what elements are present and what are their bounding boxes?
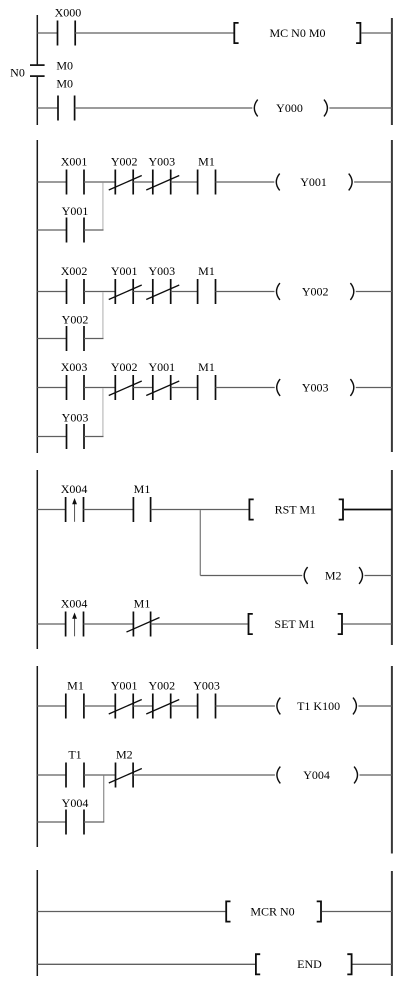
svg-text:Y003: Y003 xyxy=(62,410,89,424)
svg-text:Y004: Y004 xyxy=(62,796,89,810)
left power rail (block 2) xyxy=(36,140,38,453)
right power rail (block 3) xyxy=(391,470,393,645)
rung 7 wire: X004 to M1 contact xyxy=(84,623,134,625)
rung 6 wire: X004 to M1 contact xyxy=(84,509,134,511)
rung 2 wire: Y000 coil to right rail xyxy=(329,107,392,109)
rung 7 wire: left rail to X004 xyxy=(37,623,65,625)
svg-text:X004: X004 xyxy=(61,596,88,610)
svg-text:X003: X003 xyxy=(61,360,88,374)
svg-text:X002: X002 xyxy=(61,264,88,278)
right power rail (block 4) xyxy=(391,666,393,854)
rung 5 wire: left rail to X003 xyxy=(37,387,66,389)
rung 10 wire: left rail to MCR instruction xyxy=(37,911,225,913)
svg-text:Y001: Y001 xyxy=(111,264,138,278)
rung 4 wire: M1 to Y002 coil xyxy=(216,291,275,293)
svg-text:X001: X001 xyxy=(61,154,88,168)
rung 3 wire: left rail to X001 xyxy=(37,181,66,183)
left power rail (block 3) xyxy=(36,470,38,649)
rung 8 wire: Y002 to Y003 contact xyxy=(171,705,198,707)
rung 3 wire: Y002 to Y003 contact xyxy=(133,181,153,183)
rung 1 wire: left rail to X000 contact xyxy=(37,32,57,34)
svg-text:M1: M1 xyxy=(67,678,84,692)
rung 5 wire: Y001 to M1 contact xyxy=(171,387,198,389)
svg-text:Y003: Y003 xyxy=(193,678,220,692)
instruction MC N0 M0 left bracket xyxy=(234,23,238,43)
rung 4 parallel branch wire: Y002 contact to junction xyxy=(84,338,104,340)
rung 6 wire: RST instruction to right rail xyxy=(344,509,392,511)
instruction SET M1 right bracket xyxy=(338,614,342,634)
svg-text:Y001: Y001 xyxy=(62,204,89,218)
rung 8 wire: Y001 to Y002 contact xyxy=(133,705,153,707)
rung 11 wire: left rail to END instruction xyxy=(37,963,255,965)
svg-text:M1: M1 xyxy=(134,482,151,496)
contact Y004 (NO, parallel seal-in) xyxy=(66,810,84,835)
rung 1 wire: MC instruction to right rail xyxy=(361,32,392,34)
svg-text:END: END xyxy=(297,957,322,971)
rung 4 parallel branch wire: left rail to Y002 contact xyxy=(37,338,66,340)
rung 1 wire: X000 to MC instruction xyxy=(75,32,233,34)
svg-text:MCR N0: MCR N0 xyxy=(250,904,294,918)
rung 3 wire: X001 to Y002 contact xyxy=(84,181,115,183)
svg-text:Y002: Y002 xyxy=(62,312,89,326)
left power rail (block 1, above MC nest contact) xyxy=(36,15,38,64)
rung 3 wire: Y001 coil to right rail xyxy=(354,181,392,183)
right power rail (block 2) xyxy=(391,140,393,452)
svg-text:N0: N0 xyxy=(10,66,25,80)
rung 7 wire: M1 to SET instruction xyxy=(151,623,248,625)
rung 9 wire: T1 to M2 contact xyxy=(84,774,116,776)
rung 9 parallel branch wire: Y004 contact to junction xyxy=(84,821,104,823)
rung 3 wire: M1 to Y001 coil xyxy=(216,181,275,183)
rung 3 parallel branch wire: left rail to Y001 contact xyxy=(37,229,66,231)
instruction MCR N0 right bracket xyxy=(317,901,321,921)
left power rail (block 4) xyxy=(36,666,38,847)
coil T1 (timer, preset K100) xyxy=(277,698,357,715)
contact M1 (NO) xyxy=(198,375,216,400)
contact Y001 (NO, parallel seal-in) xyxy=(67,218,85,243)
rung 8 wire: left rail to M1 contact xyxy=(37,705,66,707)
rung 2 wire: left rail to M0 contact xyxy=(37,107,58,109)
contact M1 (NO) xyxy=(133,497,150,522)
coil Y001 xyxy=(276,174,352,191)
contact Y002 (NO, parallel seal-in) xyxy=(67,326,85,351)
contact Y001 (NC) xyxy=(109,279,142,304)
contact Y001 (NC) xyxy=(109,694,142,719)
branch junction wire joining Y002 parallel branch to rung 4 xyxy=(102,292,104,338)
coil Y000 xyxy=(254,100,327,117)
rung 5 wire: M1 to Y003 coil xyxy=(216,387,275,389)
svg-text:Y000: Y000 xyxy=(276,101,303,115)
svg-text:T1: T1 xyxy=(68,747,81,761)
svg-text:Y002: Y002 xyxy=(111,154,138,168)
contact X003 (NO) xyxy=(67,375,85,400)
svg-text:Y002: Y002 xyxy=(148,678,175,692)
svg-text:M1: M1 xyxy=(198,360,215,374)
contact T1 (NO) xyxy=(66,763,84,788)
svg-text:Y002: Y002 xyxy=(111,360,138,374)
rung 4 wire: Y002 coil to right rail xyxy=(356,291,392,293)
coil Y002 xyxy=(277,283,354,300)
rung 6 wire: left rail to X004 xyxy=(37,509,65,511)
rung 9 wire: left rail to T1 contact xyxy=(37,774,66,776)
contact M1 (NC) xyxy=(127,612,160,637)
contact X004 (rising-edge pulse) xyxy=(66,497,84,522)
contact M0 (NO) xyxy=(58,96,75,121)
rung 5 wire: X003 to Y002 contact xyxy=(84,387,115,389)
contact X002 (NO) xyxy=(67,279,85,304)
contact Y002 (NC, interlock) xyxy=(109,375,142,400)
contact Y002 (NC) xyxy=(146,694,179,719)
svg-text:Y004: Y004 xyxy=(303,768,330,782)
svg-text:Y003: Y003 xyxy=(148,264,175,278)
svg-text:Y001: Y001 xyxy=(148,360,175,374)
rung 8 wire: M1 to Y001 contact xyxy=(84,705,115,707)
svg-text:M2: M2 xyxy=(325,568,342,582)
svg-text:X004: X004 xyxy=(61,482,88,496)
instruction SET M1 left bracket xyxy=(249,614,253,634)
rung 11 wire: END instruction to right rail xyxy=(353,963,392,965)
branch junction wire joining Y004 parallel branch to rung 9 xyxy=(103,776,105,822)
branch wire: junction to M2 coil xyxy=(200,575,302,577)
coil Y004 xyxy=(277,767,358,784)
svg-text:X000: X000 xyxy=(55,5,82,19)
svg-text:Y002: Y002 xyxy=(302,284,329,298)
contact M1 (NO) xyxy=(66,694,84,719)
rung 4 wire: X002 to Y001 contact xyxy=(84,291,115,293)
contact M2 (NC) xyxy=(109,763,142,788)
rung 8 wire: timer coil to right rail xyxy=(358,705,392,707)
contact Y003 (NO, parallel seal-in) xyxy=(67,424,85,449)
contact Y001 (NC, interlock) xyxy=(146,375,179,400)
rung 10 wire: MCR instruction to right rail xyxy=(322,911,392,913)
svg-text:Y001: Y001 xyxy=(111,678,138,692)
rung 2 wire: M0 contact to Y000 coil xyxy=(75,107,253,109)
rung 9 wire: M2 to Y004 coil xyxy=(133,774,275,776)
branch wire dropping from rung 6 to M2 coil line xyxy=(199,510,201,575)
rung 4 wire: Y003 to M1 contact xyxy=(171,291,198,293)
rung 5 parallel branch wire: Y003 contact to junction xyxy=(84,436,104,438)
contact X004 (rising-edge pulse) xyxy=(66,612,84,637)
rung 5 wire: Y003 coil to right rail xyxy=(356,387,392,389)
rung 8 wire: Y003 to timer coil xyxy=(216,705,275,707)
svg-text:Y003: Y003 xyxy=(148,154,175,168)
svg-text:MC N0 M0: MC N0 M0 xyxy=(269,26,325,40)
contact Y003 (NC) xyxy=(146,170,179,195)
svg-text:SET M1: SET M1 xyxy=(274,617,315,631)
svg-text:M2: M2 xyxy=(116,747,133,761)
branch junction wire joining Y001 parallel branch to rung 3 xyxy=(102,183,104,230)
right power rail (block 5) xyxy=(391,871,393,976)
contact Y003 (NO) xyxy=(198,694,216,719)
contact M1 (NO) xyxy=(198,170,216,195)
svg-text:Y001: Y001 xyxy=(300,175,327,189)
contact Y002 (NC) xyxy=(109,170,142,195)
instruction RST M1 left bracket xyxy=(249,499,253,519)
svg-text:M1: M1 xyxy=(198,264,215,278)
rung 3 parallel branch wire: Y001 contact to junction xyxy=(84,229,104,231)
svg-text:M1: M1 xyxy=(134,596,151,610)
contact M1 (NO) xyxy=(198,279,216,304)
svg-text:Y003: Y003 xyxy=(302,380,329,394)
rung 7 wire: SET instruction to right rail xyxy=(343,623,392,625)
svg-text:M0: M0 xyxy=(56,77,73,91)
rung 9 wire: Y004 coil to right rail xyxy=(360,774,392,776)
rung 3 wire: Y003 to M1 contact xyxy=(171,181,198,183)
contact X000 (NO) xyxy=(58,21,76,46)
left power rail (block 1, below MC nest contact) xyxy=(36,77,38,125)
MC nest contact N0/M0 on left rail xyxy=(30,65,45,76)
rung 4 wire: Y001 to Y003 contact xyxy=(133,291,153,293)
branch junction wire joining Y003 parallel branch to rung 5 xyxy=(102,388,104,436)
instruction END right bracket xyxy=(347,954,351,974)
coil Y003 xyxy=(277,379,354,396)
right power rail (block 1) xyxy=(391,18,393,125)
instruction END left bracket xyxy=(256,954,260,974)
instruction MC N0 M0 right bracket xyxy=(356,23,360,43)
svg-text:T1 K100: T1 K100 xyxy=(297,699,340,713)
coil M2 xyxy=(304,567,362,584)
rung 6 wire: M1 to RST instruction xyxy=(151,509,249,511)
rung 5 parallel branch wire: left rail to Y003 contact xyxy=(37,436,66,438)
instruction RST M1 right bracket xyxy=(339,499,343,519)
left power rail (block 5) xyxy=(36,870,38,976)
contact X001 (NO) xyxy=(67,170,85,195)
svg-text:M1: M1 xyxy=(198,154,215,168)
instruction MCR N0 left bracket xyxy=(226,901,230,921)
svg-text:M0: M0 xyxy=(56,58,73,72)
svg-text:RST M1: RST M1 xyxy=(275,502,316,516)
rung 9 parallel branch wire: left rail to Y004 contact xyxy=(37,821,66,823)
rung 4 wire: left rail to X002 xyxy=(37,291,66,293)
branch wire: M2 coil to right rail xyxy=(365,575,392,577)
rung 5 wire: Y002 to Y001 contact xyxy=(133,387,153,389)
contact Y003 (NC, interlock) xyxy=(146,279,179,304)
